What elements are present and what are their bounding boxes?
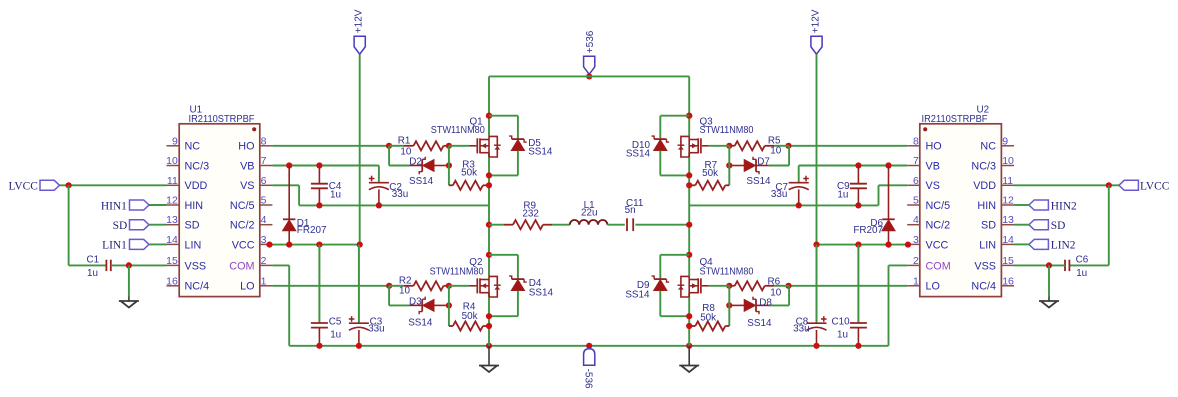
svg-text:SS14: SS14 bbox=[626, 148, 651, 159]
resistor R8 50k gate pulldown bbox=[725, 325, 729, 327]
node Q2 drain tee bbox=[486, 252, 492, 258]
IC U2 IR2110STRPBF body bbox=[920, 124, 1002, 297]
U1 pin 4 NC/2 bbox=[260, 224, 273, 226]
capacitor C10 1u bbox=[857, 245, 859, 323]
svg-text:LO: LO bbox=[240, 281, 254, 293]
node D10 return junction bbox=[686, 172, 692, 178]
svg-text:FR207: FR207 bbox=[297, 225, 327, 236]
U2 pin 14 LIN bbox=[1001, 243, 1014, 245]
node Q1 drain tee bbox=[486, 113, 492, 119]
wire C1 to VSS pin 15 bbox=[111, 264, 167, 266]
svg-text:NC/5: NC/5 bbox=[230, 200, 255, 212]
capacitor C3 33u bbox=[358, 245, 360, 324]
U1 pin 10 NC/3 bbox=[167, 165, 180, 167]
wire right leg (Q3 source chain down to Q4) bbox=[688, 153, 690, 277]
svg-text:+536: +536 bbox=[585, 30, 596, 53]
svg-text:VS: VS bbox=[926, 180, 940, 192]
node D5 return junction bbox=[486, 172, 492, 178]
wire LVCC down to VSS row bbox=[68, 185, 70, 265]
wire top rail bbox=[489, 75, 689, 77]
wire HIN1 to pin 12 bbox=[149, 204, 167, 206]
svg-text:3: 3 bbox=[261, 234, 267, 246]
wire +12V down to VCC row (right) bbox=[816, 54, 818, 244]
svg-text:SS14: SS14 bbox=[746, 176, 771, 187]
node VCC/C10 junction bbox=[855, 242, 861, 248]
wire C11 to right leg bbox=[635, 224, 689, 226]
capacitor C2 33u bootstrap bulk bbox=[369, 182, 389, 184]
diode D8 SS14 anti-parallel gate diode bbox=[769, 304, 789, 306]
resistor R7 50k gate pulldown bbox=[725, 184, 729, 186]
svg-text:33u: 33u bbox=[771, 189, 787, 200]
U2 pin 8 HO bbox=[907, 145, 920, 147]
U2 pin 10 NC/3 bbox=[1001, 165, 1014, 167]
svg-text:2: 2 bbox=[913, 255, 919, 267]
node LO/R2 junction bbox=[386, 283, 392, 289]
U1 pin 7 VB bbox=[260, 165, 273, 167]
wire gate column bbox=[728, 146, 730, 186]
wire LO row (U2 pin 1 to R6) bbox=[789, 285, 908, 287]
svg-text:1u: 1u bbox=[330, 189, 341, 200]
svg-text:232: 232 bbox=[522, 208, 538, 219]
node VCC pin junction (U2) bbox=[905, 242, 911, 248]
node C1/ground junction bbox=[126, 262, 132, 268]
node output left leg bbox=[486, 222, 492, 228]
ground (left) bbox=[128, 297, 130, 302]
wire COM (U2 pin 2) to bottom rail bbox=[889, 264, 908, 266]
global label HIN2 bbox=[1029, 200, 1049, 210]
node rail/C3 bbox=[356, 343, 362, 349]
svg-text:33u: 33u bbox=[368, 323, 384, 334]
diode D2 SS14 anti-parallel gate diode bbox=[389, 165, 409, 167]
node VS/C7 junction bbox=[796, 202, 802, 208]
svg-text:SS14: SS14 bbox=[409, 176, 434, 187]
svg-text:5: 5 bbox=[261, 195, 267, 207]
wire right leg drain bbox=[688, 76, 690, 136]
node D7 junction bbox=[726, 162, 732, 168]
wire VCC row (U1 pin 3) bbox=[272, 244, 359, 246]
U1 pin 8 HO bbox=[260, 145, 273, 147]
svg-text:HIN2: HIN2 bbox=[1051, 200, 1077, 212]
svg-text:HIN: HIN bbox=[185, 200, 204, 212]
node HO/R5 junction (right) bbox=[785, 143, 791, 149]
svg-text:4: 4 bbox=[261, 214, 267, 226]
svg-text:9: 9 bbox=[1002, 135, 1008, 147]
node R6 gate-side junction bbox=[726, 283, 732, 289]
svg-text:VCC: VCC bbox=[232, 239, 255, 251]
transistor Q4 STW11NM80 N-MOSFET bbox=[700, 278, 702, 293]
U2 pin 7 VB bbox=[907, 165, 920, 167]
svg-text:14: 14 bbox=[1002, 234, 1014, 246]
node rail/C5 bbox=[316, 343, 322, 349]
svg-text:STW11NM80: STW11NM80 bbox=[700, 266, 754, 277]
svg-text:16: 16 bbox=[166, 275, 178, 287]
transistor Q3 STW11NM80 N-MOSFET bbox=[700, 138, 702, 153]
node Q4 drain tee bbox=[686, 252, 692, 258]
svg-text:50k: 50k bbox=[462, 311, 478, 322]
node R3 leg junction bbox=[486, 182, 492, 188]
svg-text:NC: NC bbox=[185, 141, 201, 153]
wire C2 top corner down bbox=[378, 166, 380, 183]
resistor R4 50k gate pulldown bbox=[449, 325, 453, 327]
svg-text:LO: LO bbox=[926, 281, 940, 293]
svg-text:D2: D2 bbox=[409, 157, 422, 168]
U2 pin 15 VSS bbox=[1001, 264, 1014, 266]
diode D5 SS14 freewheel bbox=[489, 115, 518, 117]
svg-text:SS14: SS14 bbox=[408, 317, 433, 328]
node VB/C9 junction bbox=[855, 162, 861, 168]
svg-text:3: 3 bbox=[913, 234, 919, 246]
node D9 return junction bbox=[686, 313, 692, 319]
U1 pin 16 NC/4 bbox=[167, 285, 180, 287]
U1 pin 3 VCC bbox=[260, 243, 273, 245]
global label LIN1 bbox=[130, 239, 150, 249]
svg-text:FR207: FR207 bbox=[853, 225, 883, 236]
U1 pin 15 VSS bbox=[167, 264, 180, 266]
node R5 gate-side junction bbox=[726, 143, 732, 149]
capacitor C9 1u bootstrap bbox=[857, 166, 859, 184]
wire R1 input drop bbox=[388, 146, 390, 166]
resistor R6 10 bbox=[774, 285, 789, 287]
svg-text:10: 10 bbox=[1002, 155, 1014, 167]
svg-text:10: 10 bbox=[399, 286, 410, 297]
node VCC/D1 junction bbox=[286, 242, 292, 248]
node VS/C9 junction bbox=[855, 202, 861, 208]
wire down to ground (right) bbox=[1048, 265, 1050, 296]
node rail/-536 bbox=[586, 343, 592, 349]
wire R6 input drop bbox=[788, 286, 790, 306]
diode D1 FR207 bootstrap bbox=[288, 166, 290, 220]
resistor R1 10 bbox=[389, 145, 404, 147]
node D8 junction bbox=[726, 302, 732, 308]
svg-text:D3: D3 bbox=[409, 297, 422, 308]
wire gate column bbox=[448, 286, 450, 326]
wire left ground drop bbox=[488, 346, 490, 361]
wire R9 to L1 bbox=[552, 224, 570, 226]
svg-text:11: 11 bbox=[167, 175, 178, 187]
wire SD to pin 13 bbox=[149, 224, 167, 226]
wire VS row to bridge right leg bbox=[689, 204, 878, 206]
power +536 bbox=[584, 56, 595, 74]
node +536 junction bbox=[586, 73, 592, 79]
wire L1 to C11 bbox=[607, 224, 624, 226]
wire HIN2 to pin 12 (U2) bbox=[1014, 204, 1029, 206]
svg-text:NC/2: NC/2 bbox=[926, 220, 951, 232]
wire VSS row left segment bbox=[69, 264, 107, 266]
transistor Q1 STW11NM80 N-MOSFET bbox=[476, 138, 478, 153]
node rail/Q4 source bbox=[686, 343, 692, 349]
svg-text:15: 15 bbox=[166, 255, 178, 267]
wire COM (U1 pin 2) to bottom rail bbox=[272, 264, 289, 266]
ground (bridge left) bbox=[488, 361, 490, 366]
svg-text:SS14: SS14 bbox=[529, 288, 554, 299]
node VS/C4 junction bbox=[316, 202, 322, 208]
wire VS pin 6 jog bbox=[272, 184, 299, 186]
wire output row to R9 bbox=[489, 224, 504, 226]
U1 pin 11 VDD bbox=[167, 184, 180, 186]
U1 pin 6 VS bbox=[260, 184, 273, 186]
ground (right) bbox=[1048, 297, 1050, 302]
IC U1 IR2110STRPBF body bbox=[179, 124, 260, 297]
diode D9 SS14 freewheel bbox=[660, 254, 689, 256]
U2 pin 4 NC/2 bbox=[907, 224, 920, 226]
svg-text:VSS: VSS bbox=[185, 260, 207, 272]
svg-text:COM: COM bbox=[926, 260, 951, 272]
wire bottom rail bbox=[289, 345, 888, 347]
node LVCC junction bbox=[66, 182, 72, 188]
svg-text:COM: COM bbox=[229, 260, 254, 272]
power +12V (left) bbox=[354, 36, 365, 54]
node C6/ground junction bbox=[1046, 262, 1052, 268]
svg-text:LIN1: LIN1 bbox=[102, 240, 127, 252]
svg-text:-536: -536 bbox=[583, 369, 594, 389]
U2 pin 16 NC/4 bbox=[1001, 285, 1014, 287]
wire C7 top corner down bbox=[798, 166, 800, 183]
U1 pin 12 HIN bbox=[167, 204, 180, 206]
svg-text:LIN: LIN bbox=[185, 239, 202, 251]
svg-text:VB: VB bbox=[240, 160, 254, 172]
svg-text:C10: C10 bbox=[831, 316, 850, 327]
svg-text:+12V: +12V bbox=[354, 9, 365, 33]
wire HO row (U2 pin 8 to R5) bbox=[789, 145, 908, 147]
node HO/R1 junction bbox=[386, 143, 392, 149]
svg-text:NC/3: NC/3 bbox=[971, 160, 996, 172]
wire LIN1 to pin 14 bbox=[149, 243, 167, 245]
U2 pin 12 HIN bbox=[1001, 204, 1014, 206]
svg-text:7: 7 bbox=[261, 155, 267, 167]
inductor L1 22u bbox=[570, 220, 608, 225]
svg-text:IR2110STRPBF: IR2110STRPBF bbox=[922, 114, 988, 125]
svg-text:12: 12 bbox=[1002, 195, 1014, 207]
svg-text:D7: D7 bbox=[757, 157, 770, 168]
capacitor C8 33u bbox=[816, 245, 818, 324]
svg-text:LVCC: LVCC bbox=[1140, 181, 1169, 193]
U1 pin 13 SD bbox=[167, 224, 180, 226]
svg-text:6: 6 bbox=[913, 175, 919, 187]
wire right ground drop bbox=[688, 346, 690, 361]
node VB/C4 junction bbox=[316, 162, 322, 168]
node rail/C8 bbox=[813, 343, 819, 349]
node R7 leg junction bbox=[686, 182, 692, 188]
svg-text:C1: C1 bbox=[87, 255, 100, 266]
power -536 bbox=[584, 349, 595, 366]
svg-text:16: 16 bbox=[1002, 275, 1014, 287]
svg-text:HIN: HIN bbox=[977, 200, 996, 212]
svg-text:SD: SD bbox=[1051, 220, 1066, 232]
U1 pin 1 LO bbox=[260, 285, 273, 287]
svg-text:C5: C5 bbox=[329, 316, 342, 327]
wire VB row (U1 pin 7) bbox=[272, 165, 379, 167]
svg-text:STW11NM80: STW11NM80 bbox=[431, 125, 485, 136]
diode D3 SS14 anti-parallel gate diode bbox=[389, 304, 409, 306]
svg-text:22u: 22u bbox=[581, 208, 597, 219]
node rail/Q2 source bbox=[486, 343, 492, 349]
node D2 junction bbox=[446, 162, 452, 168]
wire LO row (U1 pin 1 to R2) bbox=[272, 285, 389, 287]
resistor R3 50k gate pulldown bbox=[449, 184, 453, 186]
svg-text:SD: SD bbox=[185, 220, 200, 232]
node Q3 drain tee bbox=[686, 113, 692, 119]
wire +12V down to VCC row (left) bbox=[359, 54, 361, 244]
node VCC pin junction bbox=[266, 242, 272, 248]
wire right leg Q4 source to rail bbox=[688, 293, 690, 346]
capacitor C7 33u bootstrap bulk bbox=[789, 182, 809, 184]
wire R5 input drop bbox=[788, 146, 790, 166]
wire gate column bbox=[448, 146, 450, 186]
svg-text:8: 8 bbox=[913, 135, 919, 147]
U2 pin 11 VDD bbox=[1001, 184, 1014, 186]
svg-text:1u: 1u bbox=[87, 268, 98, 279]
wire left leg drain bbox=[488, 76, 490, 136]
svg-text:1: 1 bbox=[261, 275, 267, 287]
svg-text:10: 10 bbox=[166, 155, 178, 167]
svg-text:33u: 33u bbox=[392, 189, 408, 200]
node R4 leg junction bbox=[486, 323, 492, 329]
svg-text:HO: HO bbox=[238, 141, 254, 153]
capacitor C11 5n bbox=[626, 218, 628, 231]
svg-text:NC/4: NC/4 bbox=[185, 281, 210, 293]
U2 pin 3 VCC bbox=[907, 243, 920, 245]
svg-text:C6: C6 bbox=[1076, 255, 1089, 266]
U2 pin 2 COM bbox=[907, 264, 920, 266]
node R8 leg junction bbox=[686, 323, 692, 329]
resistor R9 232 bbox=[504, 224, 513, 226]
U2 pin 5 NC/5 bbox=[907, 204, 920, 206]
node R2 gate-side junction bbox=[446, 283, 452, 289]
svg-text:5: 5 bbox=[913, 195, 919, 207]
svg-text:VS: VS bbox=[240, 180, 254, 192]
svg-text:NC/5: NC/5 bbox=[926, 200, 951, 212]
svg-text:VB: VB bbox=[926, 160, 940, 172]
global label SD (right) bbox=[1029, 220, 1049, 230]
svg-text:1: 1 bbox=[913, 275, 919, 287]
svg-text:HO: HO bbox=[926, 141, 942, 153]
power +12V (right) bbox=[811, 36, 822, 54]
global label LIN2 bbox=[1029, 239, 1049, 249]
global label LVCC (left) bbox=[40, 180, 60, 190]
svg-text:R6: R6 bbox=[768, 277, 781, 288]
diode D4 SS14 freewheel bbox=[489, 254, 518, 256]
svg-text:SS14: SS14 bbox=[528, 146, 553, 157]
wire LVCC down to VSS row (right) bbox=[1108, 185, 1110, 265]
node D4 return junction bbox=[486, 313, 492, 319]
svg-text:5n: 5n bbox=[625, 205, 636, 216]
svg-text:50k: 50k bbox=[461, 167, 477, 178]
wire VB row (U2 pin 7) bbox=[799, 165, 908, 167]
transistor Q2 STW11NM80 N-MOSFET bbox=[476, 278, 478, 293]
node rail/C10 bbox=[855, 343, 861, 349]
wire gate column bbox=[728, 286, 730, 326]
U2 pin 13 SD bbox=[1001, 224, 1014, 226]
global label LVCC (right) bbox=[1119, 180, 1139, 190]
svg-text:10: 10 bbox=[770, 288, 781, 299]
node D3 junction bbox=[446, 302, 452, 308]
svg-text:6: 6 bbox=[261, 175, 267, 187]
wire C6 to VSS pin 15 (U2) bbox=[1014, 264, 1065, 266]
svg-text:R1: R1 bbox=[398, 135, 411, 146]
svg-text:SS14: SS14 bbox=[625, 289, 650, 300]
svg-text:VDD: VDD bbox=[185, 180, 208, 192]
capacitor C4 1u bootstrap bbox=[318, 166, 320, 184]
wire LIN2 to pin 14 (U2) bbox=[1014, 243, 1029, 245]
svg-text:LVCC: LVCC bbox=[8, 181, 37, 193]
global label HIN1 bbox=[130, 200, 150, 210]
wire left leg (Q1 source chain down to Q2) bbox=[488, 153, 490, 277]
wire LVCC to VDD pin 11 bbox=[60, 184, 167, 186]
wire +536 to top rail bbox=[588, 74, 590, 76]
U2 pin 9 NC bbox=[1001, 145, 1014, 147]
svg-text:14: 14 bbox=[166, 234, 178, 246]
svg-text:SS14: SS14 bbox=[747, 318, 772, 329]
svg-text:10: 10 bbox=[770, 145, 781, 156]
svg-text:7: 7 bbox=[913, 155, 919, 167]
svg-text:IR2110STRPBF: IR2110STRPBF bbox=[189, 114, 255, 125]
node D10 tee bbox=[686, 113, 692, 119]
node VCC/+12V/C3 junction bbox=[357, 242, 363, 248]
node LVCC junction (right) bbox=[1106, 182, 1112, 188]
node output right leg bbox=[686, 222, 692, 228]
wire gate lead bbox=[449, 145, 470, 147]
svg-text:SD: SD bbox=[981, 220, 996, 232]
svg-text:D8: D8 bbox=[759, 298, 772, 309]
wire gate lead bbox=[709, 285, 730, 287]
svg-text:NC/2: NC/2 bbox=[230, 220, 255, 232]
node VCC/D6 junction bbox=[885, 242, 891, 248]
svg-text:NC/3: NC/3 bbox=[185, 160, 210, 172]
U1 pin 14 LIN bbox=[167, 243, 180, 245]
svg-text:VDD: VDD bbox=[973, 180, 996, 192]
resistor R2 10 bbox=[389, 285, 404, 287]
node VB/D1 junction bbox=[286, 162, 292, 168]
wire gate lead bbox=[709, 145, 730, 147]
svg-text:NC: NC bbox=[980, 141, 996, 153]
svg-text:13: 13 bbox=[1002, 214, 1014, 226]
resistor R5 10 bbox=[774, 145, 789, 147]
svg-text:1u: 1u bbox=[837, 329, 848, 340]
svg-text:+12V: +12V bbox=[810, 9, 821, 33]
svg-text:2: 2 bbox=[261, 255, 267, 267]
ground (bridge right) bbox=[688, 361, 690, 366]
wire VCC row (U2 pin 3) bbox=[817, 244, 908, 246]
svg-text:STW11NM80: STW11NM80 bbox=[430, 266, 484, 277]
U2 pin 1 LO bbox=[907, 285, 920, 287]
diode D10 SS14 freewheel bbox=[660, 115, 689, 117]
diode D7 SS14 anti-parallel gate diode bbox=[769, 165, 789, 167]
svg-text:15: 15 bbox=[1002, 255, 1014, 267]
U1 pin 9 NC bbox=[167, 145, 180, 147]
svg-text:50k: 50k bbox=[700, 313, 716, 324]
capacitor C5 1u bbox=[318, 245, 320, 323]
svg-text:STW11NM80: STW11NM80 bbox=[700, 125, 754, 136]
wire down to ground bbox=[128, 265, 130, 296]
node VCC/C5 junction bbox=[316, 242, 322, 248]
svg-text:4: 4 bbox=[913, 214, 919, 226]
svg-text:LIN: LIN bbox=[979, 239, 996, 251]
diode D6 FR207 bootstrap bbox=[888, 166, 890, 220]
node VS/C2 junction bbox=[376, 202, 382, 208]
svg-text:SD: SD bbox=[113, 220, 128, 232]
svg-text:VSS: VSS bbox=[974, 260, 996, 272]
wire R2 input drop bbox=[388, 286, 390, 306]
capacitor C6 bbox=[1064, 260, 1066, 271]
svg-text:1u: 1u bbox=[1076, 268, 1087, 279]
svg-text:13: 13 bbox=[166, 214, 178, 226]
node LO/R6 junction bbox=[785, 283, 791, 289]
svg-text:1u: 1u bbox=[330, 329, 341, 340]
svg-text:HIN1: HIN1 bbox=[101, 200, 127, 212]
wire SD to pin 13 (U2) bbox=[1014, 224, 1029, 226]
wire gate lead bbox=[449, 285, 470, 287]
node VB/D6 junction bbox=[885, 162, 891, 168]
